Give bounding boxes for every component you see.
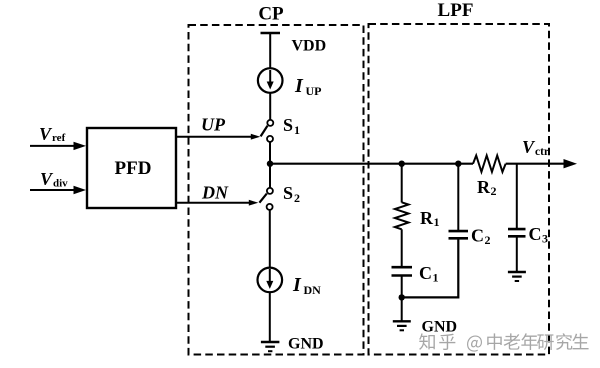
watermark char 年 (521, 333, 537, 350)
wire C2 to main (457, 164, 459, 231)
svg-text:ctr: ctr (535, 146, 549, 158)
watermark char @ (467, 336, 482, 352)
watermark char 究 (556, 333, 572, 350)
node CP output junction (267, 161, 273, 167)
svg-text:1: 1 (294, 123, 300, 137)
wire IDN to ground (269, 292, 271, 342)
svg-text:1: 1 (433, 271, 439, 285)
svg-text:CP: CP (258, 4, 284, 25)
wire S1 to node (269, 142, 271, 164)
node C2 junction dot (455, 161, 461, 167)
CP dashed box (189, 25, 364, 355)
wire Vctr node to C3 (516, 164, 518, 229)
wire R2 to output arrow (506, 163, 565, 165)
svg-text:S: S (283, 183, 293, 203)
current source IDN (258, 268, 283, 293)
svg-text:V: V (522, 137, 536, 157)
svg-text:I: I (292, 274, 302, 296)
watermark char 乎 (439, 334, 455, 350)
svg-text:S: S (283, 115, 293, 135)
watermark 知乎 @中老年研究生 (419, 333, 588, 351)
svg-text:PFD: PFD (115, 158, 152, 179)
resistor R1 (395, 202, 409, 229)
svg-text:V: V (40, 169, 54, 189)
capacitor C3 (508, 228, 526, 231)
svg-text:GND: GND (288, 336, 324, 353)
svg-text:R: R (477, 177, 491, 197)
svg-text:DN: DN (304, 283, 322, 297)
svg-text:div: div (53, 178, 68, 190)
wire DN control arrow (176, 202, 250, 204)
svg-text:UP: UP (306, 84, 322, 98)
resistor R2 (473, 156, 506, 172)
svg-text:2: 2 (485, 233, 491, 247)
svg-text:I: I (294, 75, 304, 97)
wire Vdiv input arrow (30, 189, 75, 191)
node B junction dot (399, 294, 405, 300)
capacitor C1 (392, 266, 413, 269)
ground CP (261, 341, 280, 343)
svg-text:V: V (39, 124, 53, 144)
switch S1 (267, 120, 273, 126)
wire node B to ground (401, 297, 403, 321)
watermark char 生 (572, 333, 588, 349)
svg-text:C: C (471, 226, 484, 246)
wire C3 to ground (516, 236, 518, 271)
svg-text:2: 2 (491, 184, 497, 198)
svg-text:LPF: LPF (438, 0, 474, 21)
watermark char 知 (419, 333, 435, 350)
wire VDD to IUP (269, 33, 271, 69)
svg-text:1: 1 (434, 215, 440, 229)
svg-text:GND: GND (422, 319, 458, 336)
power VDD rail (261, 32, 281, 35)
wire node B to C2 bottom (402, 238, 459, 297)
wire IUP to S1 (269, 93, 271, 120)
svg-text:R: R (420, 208, 434, 228)
wire Vref input arrow (30, 145, 75, 147)
wire main output to R2 (270, 163, 473, 165)
wire node A to R1 (401, 164, 403, 203)
node A junction dot (399, 161, 405, 167)
svg-text:ref: ref (52, 132, 66, 144)
svg-text:DN: DN (201, 183, 229, 203)
svg-text:3: 3 (542, 232, 548, 246)
ground C3 (508, 271, 526, 273)
ground LPF (393, 320, 411, 322)
watermark char 研 (537, 334, 554, 350)
wire UP control arrow (176, 136, 252, 138)
wire R1 to C1 (401, 229, 403, 267)
wire S2 to IDN (269, 210, 271, 268)
svg-text:C: C (529, 224, 542, 244)
svg-text:VDD: VDD (292, 38, 327, 55)
watermark char 老 (504, 333, 520, 349)
svg-text:2: 2 (294, 191, 300, 205)
PFD box U1 (87, 128, 176, 208)
svg-text:C: C (419, 263, 432, 283)
watermark char 中 (487, 333, 502, 350)
switch S2 (269, 164, 271, 188)
capacitor C2 (449, 230, 469, 233)
LPF dashed box (369, 24, 550, 355)
current source IUP (258, 68, 283, 93)
wire C1 to node B (401, 276, 403, 298)
svg-text:UP: UP (201, 115, 226, 135)
